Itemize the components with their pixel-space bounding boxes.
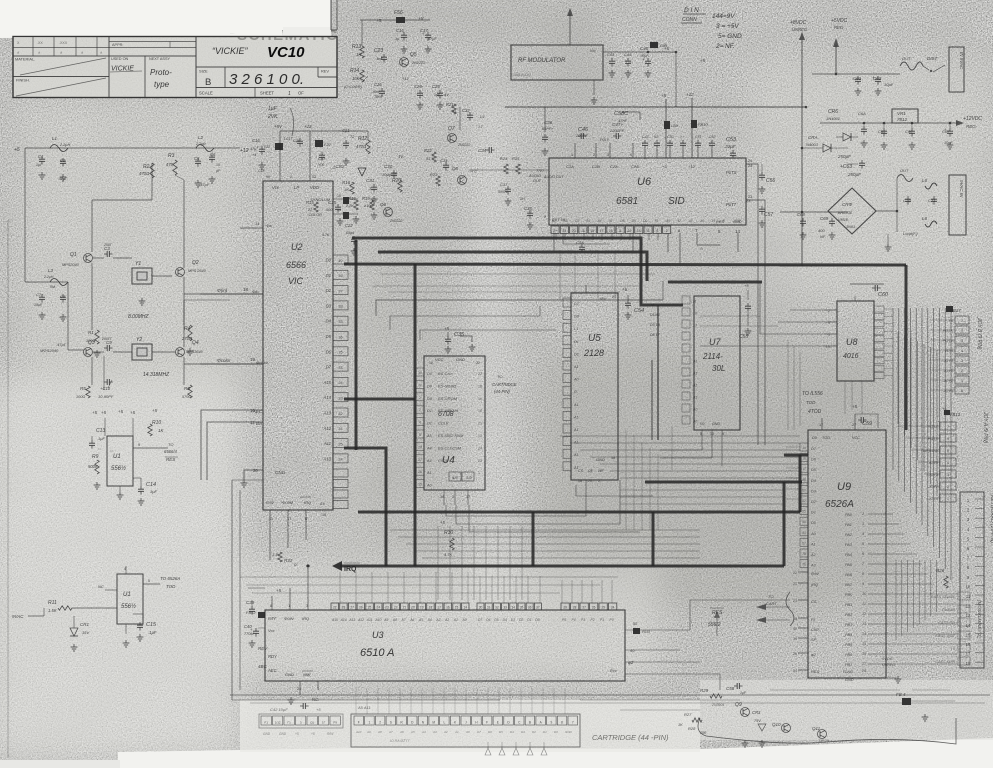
- svg-text:34: 34: [512, 605, 516, 609]
- svg-text:13: 13: [693, 324, 697, 328]
- svg-text:2114-: 2114-: [702, 352, 723, 361]
- svg-text:17: 17: [802, 467, 806, 471]
- svg-text:R1: R1: [88, 330, 94, 335]
- svg-text:19: 19: [250, 357, 256, 362]
- svg-text:556½: 556½: [111, 465, 126, 472]
- svg-text:570Ω: 570Ω: [182, 395, 191, 399]
- svg-text:12: 12: [250, 420, 255, 425]
- svg-text:27: 27: [540, 169, 544, 173]
- svg-text:76: 76: [802, 563, 806, 567]
- svg-text:C28: C28: [414, 84, 422, 89]
- svg-text:52: 52: [802, 499, 806, 503]
- svg-text:R14: R14: [350, 68, 359, 74]
- svg-text:VCC: VCC: [852, 436, 860, 440]
- svg-text:A5: A5: [410, 730, 415, 734]
- svg-text:GND: GND: [596, 457, 605, 462]
- svg-text:+5: +5: [852, 404, 858, 409]
- svg-text:14: 14: [637, 229, 641, 233]
- svg-text:ΣΗ: ΣΗ: [519, 197, 525, 201]
- svg-text:C56: C56: [766, 178, 775, 184]
- svg-text:PB2: PB2: [845, 613, 853, 617]
- svg-text:2: 2: [379, 720, 381, 724]
- svg-text:PB0: PB0: [845, 593, 853, 597]
- svg-text:10: 10: [826, 345, 830, 349]
- svg-text:CASS MTR: CASS MTR: [935, 660, 955, 664]
- svg-text:24: 24: [862, 669, 866, 673]
- svg-text:23: 23: [478, 459, 482, 463]
- svg-text:15: 15: [712, 219, 716, 223]
- svg-text:.1: .1: [368, 187, 371, 191]
- svg-text:2: 2: [598, 479, 600, 483]
- svg-text:10-90PF: 10-90PF: [98, 394, 114, 399]
- svg-text:C29: C29: [432, 84, 440, 89]
- svg-text:CRA: CRA: [808, 135, 818, 140]
- svg-text:470: 470: [166, 162, 174, 167]
- svg-text:A7: A7: [401, 618, 406, 622]
- svg-text:P2: P2: [591, 618, 595, 622]
- svg-text:Vcc: Vcc: [272, 185, 280, 190]
- svg-text:D2: D2: [326, 288, 332, 293]
- svg-text:GND: GND: [275, 470, 286, 475]
- svg-text:AUDIO: AUDIO: [528, 174, 541, 178]
- svg-text:28: 28: [342, 605, 346, 609]
- svg-text:4V: 4V: [444, 92, 449, 97]
- svg-text:RES: RES: [166, 457, 175, 462]
- svg-text:+C63: +C63: [840, 164, 852, 170]
- svg-text:39: 39: [793, 637, 797, 641]
- svg-text:3N01: 3N01: [846, 225, 855, 229]
- svg-text:+5: +5: [92, 410, 98, 415]
- svg-text:9: 9: [419, 383, 421, 387]
- svg-text:D1: D1: [427, 422, 432, 426]
- svg-text:(C-CORR): (C-CORR): [344, 85, 362, 89]
- svg-text:A1: A1: [573, 441, 579, 445]
- svg-text:+5V: +5V: [274, 124, 283, 129]
- svg-text:A14: A14: [323, 395, 332, 400]
- svg-text:ES 6502 RAM: ES 6502 RAM: [438, 433, 464, 438]
- svg-text:C55: C55: [739, 334, 748, 340]
- svg-text:2: 2: [452, 495, 454, 499]
- svg-text:R11: R11: [48, 600, 57, 606]
- svg-text:RES: RES: [811, 669, 820, 674]
- svg-text:F013: F013: [642, 630, 650, 634]
- svg-text:R2: R2: [143, 164, 150, 170]
- svg-text:78: 78: [802, 552, 806, 556]
- svg-text:U4: U4: [442, 455, 455, 466]
- svg-text:55: 55: [802, 510, 806, 514]
- svg-text:1: 1: [288, 91, 291, 97]
- svg-text:+: +: [872, 75, 875, 80]
- svg-text:COLOR: COLOR: [308, 213, 322, 217]
- svg-text:27: 27: [852, 423, 856, 427]
- svg-text:36: 36: [338, 335, 342, 339]
- svg-text:JOY0: JOY0: [943, 389, 954, 393]
- svg-text:C22: C22: [345, 223, 353, 228]
- svg-text:C2A: C2A: [610, 164, 618, 169]
- svg-text:D3: D3: [326, 303, 332, 308]
- svg-text:9: 9: [138, 443, 140, 447]
- svg-text:3.3: 3.3: [272, 552, 278, 557]
- svg-text:A0: A0: [699, 219, 704, 223]
- svg-text:R30: R30: [444, 530, 453, 536]
- svg-text:Φ(in): Φ(in): [217, 288, 228, 293]
- svg-text:TO: TO: [768, 594, 773, 599]
- svg-text:µF: µF: [216, 169, 220, 173]
- svg-text:APPR:: APPR:: [112, 43, 123, 47]
- svg-text:3: 3: [607, 153, 609, 157]
- svg-text:R26: R26: [936, 568, 945, 573]
- svg-text:4.7K: 4.7K: [322, 233, 330, 237]
- svg-text:S: S: [390, 720, 392, 724]
- svg-text:REV: REV: [321, 69, 329, 74]
- svg-text:C38: C38: [524, 206, 532, 211]
- svg-text:40: 40: [266, 175, 270, 179]
- svg-text:13: 13: [966, 613, 971, 618]
- svg-text:Q4: Q4: [192, 340, 199, 346]
- svg-text:50: 50: [802, 488, 806, 492]
- svg-text:24: 24: [478, 446, 482, 450]
- svg-text:Φm: Φm: [266, 224, 272, 228]
- svg-text:UNREG: UNREG: [792, 27, 808, 32]
- svg-text:D6: D6: [488, 730, 492, 734]
- svg-text:20: 20: [572, 229, 576, 233]
- svg-text:Proto-: Proto-: [150, 68, 172, 77]
- svg-text:10: 10: [966, 584, 971, 589]
- svg-text:A1: A1: [573, 403, 579, 407]
- svg-text:R22: R22: [424, 148, 432, 153]
- svg-text:.47µΓ: .47µΓ: [58, 177, 68, 181]
- svg-text:UNREG: UNREG: [882, 663, 895, 667]
- svg-text:1: 1: [369, 720, 371, 724]
- svg-text:A2: A2: [810, 553, 817, 557]
- svg-text:PA5: PA5: [845, 563, 853, 567]
- svg-text:D8 17: D8 17: [650, 333, 661, 337]
- svg-text:20: 20: [253, 468, 258, 473]
- svg-text:+5: +5: [130, 410, 136, 415]
- svg-text:U7: U7: [709, 337, 721, 347]
- svg-text:JOY1: JOY1: [928, 485, 939, 489]
- svg-text:69µ4: 69µ4: [346, 231, 354, 235]
- svg-text:L: L: [443, 720, 445, 724]
- svg-text:C44: C44: [624, 53, 631, 57]
- svg-text:32: 32: [495, 605, 499, 609]
- svg-text:L89: L89: [671, 123, 678, 128]
- svg-text:D3 1B: D3 1B: [650, 323, 661, 327]
- svg-text:A14: A14: [340, 618, 347, 622]
- svg-text:24: 24: [376, 605, 380, 609]
- svg-text:6566: 6566: [286, 260, 306, 270]
- svg-text:FB13: FB13: [950, 412, 961, 417]
- svg-text:R24: R24: [500, 156, 508, 161]
- svg-text:24: 24: [611, 605, 615, 609]
- svg-text:40: 40: [793, 627, 797, 631]
- svg-text:11: 11: [646, 229, 650, 233]
- svg-text:+12: +12: [688, 164, 696, 169]
- svg-text:56: 56: [802, 520, 806, 524]
- svg-text:C7+: C7+: [36, 292, 44, 297]
- svg-text:17: 17: [437, 605, 441, 609]
- svg-text:1045 AUDIO: 1045 AUDIO: [513, 73, 531, 77]
- svg-text:30: 30: [479, 605, 483, 609]
- svg-text:A1: A1: [573, 415, 579, 419]
- svg-text:U2: U2: [291, 242, 303, 252]
- svg-text:3µF: 3µF: [150, 489, 158, 494]
- svg-text:D1: D1: [326, 273, 331, 278]
- svg-text:Vcc: Vcc: [268, 628, 275, 633]
- svg-text:200ΓΓ: 200ΓΓ: [101, 337, 113, 341]
- svg-text:84: 84: [586, 219, 590, 223]
- svg-text:WE: WE: [598, 469, 604, 473]
- svg-text:2: 2: [666, 229, 668, 233]
- svg-text:35: 35: [520, 605, 524, 609]
- svg-text:10µF: 10µF: [944, 141, 953, 145]
- svg-text:CASS WRT: CASS WRT: [935, 634, 956, 638]
- svg-text:U9: U9: [837, 481, 851, 493]
- svg-text:NEXT ASSY: NEXT ASSY: [149, 57, 171, 61]
- svg-text:φ2: φ2: [552, 219, 556, 223]
- svg-text:220PF: 220PF: [575, 133, 588, 138]
- svg-text:U1: U1: [123, 592, 131, 598]
- svg-text:18: 18: [578, 479, 582, 483]
- svg-text:PB6: PB6: [845, 653, 853, 657]
- svg-text:4: 4: [630, 153, 632, 157]
- svg-text:A4: A4: [597, 219, 602, 223]
- svg-text:21: 21: [793, 582, 797, 586]
- svg-text:AEC: AEC: [267, 668, 278, 673]
- svg-text:Q10: Q10: [772, 722, 781, 727]
- svg-text:A11: A11: [366, 618, 373, 622]
- svg-text:+5: +5: [316, 707, 321, 712]
- svg-text:18: 18: [693, 312, 697, 316]
- svg-text:C5: C5: [575, 219, 579, 223]
- svg-text:1Γ: 1Γ: [322, 720, 326, 724]
- svg-text:D3: D3: [521, 730, 525, 734]
- svg-text:Q11: Q11: [812, 726, 821, 731]
- svg-text:26: 26: [359, 605, 363, 609]
- svg-text:.47µF: .47µF: [199, 182, 210, 187]
- svg-text:3 2 6 1 0 0.: 3 2 6 1 0 0.: [229, 71, 304, 88]
- svg-text:22: 22: [476, 361, 480, 365]
- svg-text:FLAG: FLAG: [843, 670, 853, 674]
- svg-text:51: 51: [426, 157, 430, 161]
- svg-text:556½: 556½: [121, 603, 136, 610]
- svg-text:22: 22: [394, 605, 398, 609]
- svg-text:Q2: Q2: [192, 260, 199, 266]
- svg-text:A10: A10: [355, 730, 362, 734]
- svg-text:FB12: FB12: [246, 610, 256, 615]
- svg-text:Φcolor: Φcolor: [217, 358, 231, 363]
- svg-text:+12VDC: +12VDC: [963, 116, 982, 122]
- svg-text:11: 11: [862, 602, 866, 606]
- svg-text:A5: A5: [665, 219, 670, 223]
- svg-text:JOY A (9 PIN): JOY A (9 PIN): [982, 411, 988, 444]
- svg-text:VCC: VCC: [435, 357, 444, 362]
- svg-text:PB1: PB1: [845, 603, 852, 607]
- svg-text:L3: L3: [48, 268, 54, 273]
- svg-text:+: +: [680, 135, 682, 139]
- svg-text:A8: A8: [392, 618, 397, 622]
- svg-text:U8: U8: [846, 337, 858, 347]
- svg-text:RDY: RDY: [268, 654, 278, 659]
- svg-text:25: 25: [601, 605, 605, 609]
- svg-text:+: +: [250, 627, 253, 632]
- svg-text:PA7: PA7: [845, 583, 853, 587]
- svg-text:2.2µƟ: 2.2µƟ: [195, 142, 206, 146]
- svg-text:C52: C52: [709, 135, 715, 139]
- svg-text:19: 19: [420, 605, 424, 609]
- svg-text:1/12: 1/12: [275, 720, 281, 724]
- svg-text:+5: +5: [662, 164, 667, 169]
- svg-text:+5: +5: [101, 410, 107, 415]
- svg-text:A0: A0: [692, 408, 697, 412]
- svg-text:2: 2: [828, 309, 830, 313]
- svg-text:MPS2040: MPS2040: [62, 263, 80, 267]
- svg-text:JOY B (9 PIN): JOY B (9 PIN): [976, 317, 982, 350]
- svg-text:8: 8: [723, 219, 725, 223]
- svg-text:5: 5: [619, 229, 621, 233]
- svg-text:2N(?): 2N(?): [467, 169, 477, 173]
- svg-text:+12: +12: [402, 76, 410, 81]
- svg-text:C37: C37: [500, 182, 508, 187]
- svg-text:V0: V0: [700, 422, 704, 426]
- svg-text:IN 9VAC: IN 9VAC: [959, 52, 964, 70]
- svg-text:2N3904: 2N3904: [711, 703, 724, 707]
- svg-text:C1: C1: [38, 154, 43, 159]
- svg-text:.22µF: .22µF: [724, 144, 736, 149]
- svg-text:500: 500: [326, 208, 333, 212]
- svg-text:A12: A12: [357, 618, 364, 622]
- svg-text:A6: A6: [399, 730, 404, 734]
- svg-text:22: 22: [478, 372, 482, 376]
- svg-text:A8: A8: [377, 730, 382, 734]
- svg-text:BRIDGE: BRIDGE: [838, 211, 853, 215]
- svg-text:C31: C31: [366, 178, 375, 183]
- svg-text:22: 22: [793, 571, 797, 575]
- svg-text:5: 5: [148, 579, 150, 583]
- svg-text:2128: 2128: [583, 348, 604, 358]
- svg-text:C33: C33: [440, 158, 448, 163]
- svg-text:A1: A1: [573, 428, 579, 432]
- svg-text:C25: C25: [328, 200, 337, 205]
- svg-text:“VICKIE”: “VICKIE”: [212, 46, 249, 56]
- svg-text:12: 12: [429, 361, 433, 365]
- svg-text:47nF: 47nF: [618, 118, 628, 123]
- svg-text:MΦS2040: MΦS2040: [40, 348, 59, 353]
- svg-text:MPS 2640: MPS 2640: [188, 269, 207, 273]
- svg-text:FL: FL: [811, 617, 816, 622]
- svg-text:27: 27: [582, 605, 586, 609]
- svg-text:M: M: [432, 720, 435, 724]
- svg-text:A3: A3: [435, 618, 440, 622]
- svg-text:R12: R12: [358, 136, 367, 142]
- svg-text:30L: 30L: [712, 364, 725, 373]
- svg-text:PA1: PA1: [845, 523, 852, 527]
- svg-text:TO /L556: TO /L556: [802, 391, 823, 397]
- svg-text:Q5: Q5: [410, 52, 417, 58]
- svg-text:LC17: LC17: [284, 137, 293, 141]
- svg-text:27: 27: [350, 605, 354, 609]
- svg-text:2N2222: 2N2222: [457, 143, 470, 147]
- svg-text:C61: C61: [853, 76, 862, 81]
- svg-text:POLY: POLY: [600, 138, 610, 142]
- svg-text:19: 19: [478, 397, 482, 401]
- svg-text:1.5K: 1.5K: [48, 608, 57, 613]
- svg-text:A0: A0: [692, 420, 697, 424]
- svg-text:D1: D1: [574, 352, 579, 356]
- svg-text:10µф: 10µф: [382, 173, 392, 177]
- svg-text:PA6: PA6: [845, 573, 853, 577]
- svg-text:+: +: [944, 127, 947, 132]
- svg-text:↓: ↓: [366, 157, 368, 161]
- svg-text:1/2: 1/2: [466, 475, 472, 480]
- svg-text:C45: C45: [640, 46, 649, 51]
- svg-text:17: 17: [966, 652, 971, 657]
- svg-text:FINISH.: FINISH.: [16, 78, 30, 83]
- svg-text:57: 57: [802, 541, 806, 545]
- svg-text:(MOS/KLM/KEY 2): (MOS/KLM/KEY 2): [977, 600, 982, 638]
- svg-text:8: 8: [561, 720, 563, 724]
- svg-text:4: 4: [862, 532, 864, 536]
- svg-text:TO 6526A: TO 6526A: [160, 576, 180, 581]
- svg-text:VDD: VDD: [310, 185, 319, 190]
- svg-text:50: 50: [633, 622, 637, 626]
- svg-text:88: 88: [802, 478, 806, 482]
- svg-text:15: 15: [418, 483, 422, 487]
- svg-text:+12: +12: [686, 92, 694, 97]
- svg-text:USED ON: USED ON: [111, 57, 129, 61]
- svg-text:18: 18: [440, 495, 444, 499]
- svg-text:C2B: C2B: [631, 164, 639, 169]
- svg-text:G: G: [700, 247, 703, 251]
- svg-text:500K: 500K: [88, 464, 98, 469]
- svg-text:33: 33: [503, 605, 507, 609]
- svg-text:△CR2: △CR2: [331, 164, 345, 169]
- svg-text:.1µ: .1µ: [394, 37, 400, 41]
- svg-text:+C10: +C10: [100, 386, 111, 391]
- svg-text:5: 5: [419, 433, 421, 437]
- svg-text:A1: A1: [692, 384, 697, 388]
- svg-text:C58: C58: [726, 686, 735, 691]
- svg-text:POTY: POTY: [943, 339, 954, 343]
- svg-text:470Ω: 470Ω: [139, 171, 150, 176]
- svg-text:6566/4: 6566/4: [164, 449, 177, 454]
- svg-text:IRQ: IRQ: [304, 500, 311, 505]
- svg-text:POTX: POTX: [943, 329, 954, 333]
- svg-text:27: 27: [418, 458, 422, 462]
- svg-text:Q3: Q3: [88, 340, 95, 346]
- svg-text:R0: R0: [563, 219, 567, 223]
- svg-text:24: 24: [338, 381, 342, 385]
- svg-text:2≈ NF.: 2≈ NF.: [715, 43, 735, 50]
- svg-text:GND: GND: [845, 678, 854, 682]
- svg-text:21: 21: [297, 686, 302, 691]
- svg-text:C57: C57: [764, 212, 773, 218]
- svg-text:CR1: CR1: [80, 622, 89, 627]
- svg-text:TANT: TANT: [374, 95, 384, 99]
- svg-text:R3: R3: [168, 153, 175, 159]
- svg-text:+: +: [256, 145, 259, 150]
- svg-text:R/W: R/W: [811, 571, 820, 576]
- svg-text:R4: R4: [184, 326, 191, 332]
- svg-text:OUT: OUT: [902, 56, 911, 61]
- svg-text:-8: -8: [581, 229, 584, 233]
- svg-text:VC10: VC10: [267, 44, 305, 61]
- svg-text:CCLK: CCLK: [438, 421, 449, 426]
- svg-text:CNT: CNT: [811, 627, 820, 632]
- svg-text:D5: D5: [326, 334, 332, 339]
- svg-text:C30: C30: [384, 164, 393, 169]
- svg-text:14: 14: [802, 446, 806, 450]
